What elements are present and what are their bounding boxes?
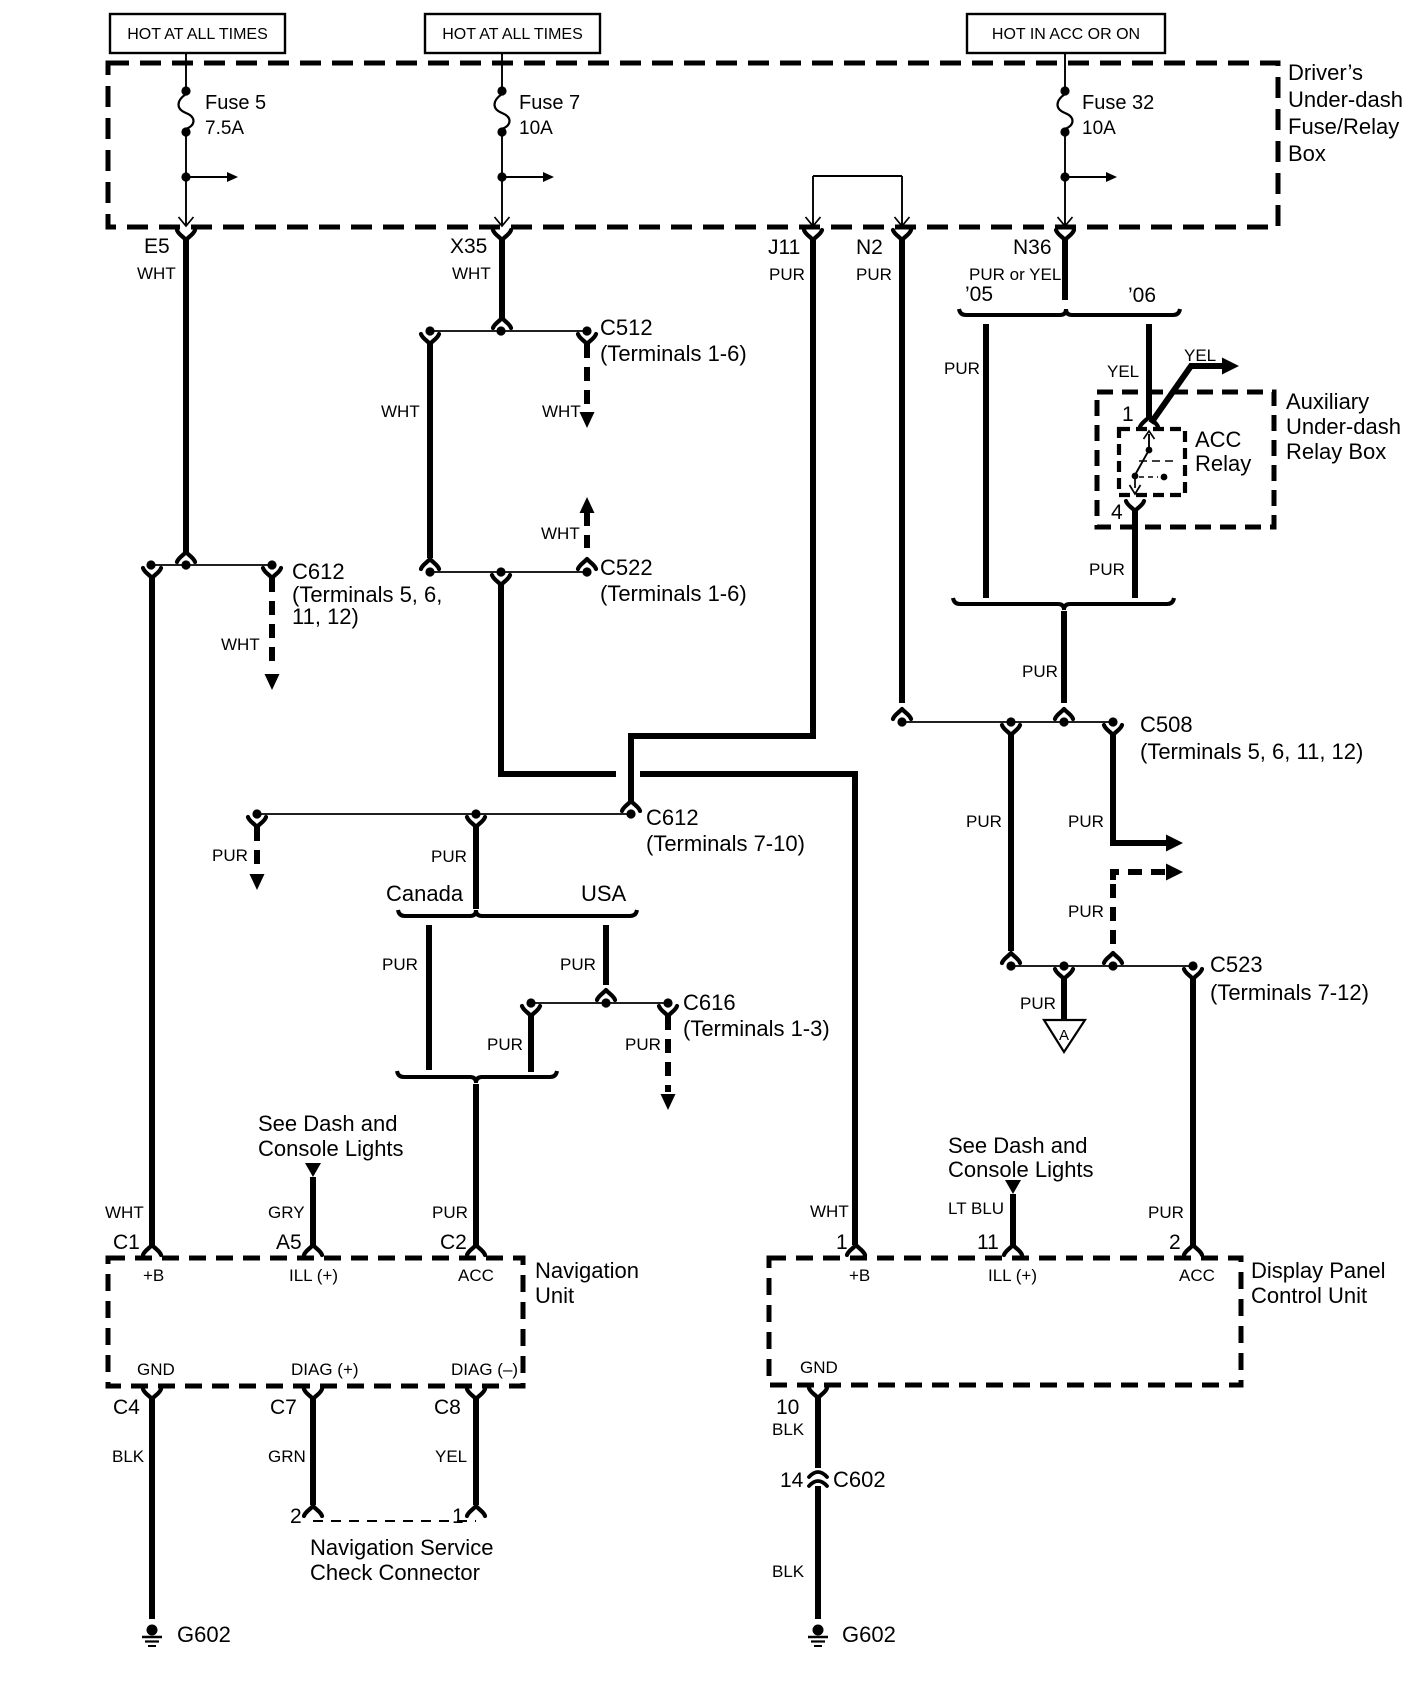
svg-text:X35: X35: [450, 235, 487, 258]
svg-text:C602: C602: [833, 1467, 886, 1492]
connector X35: [493, 230, 511, 240]
connector end at C508 line: [1055, 709, 1073, 719]
wire N2 PUR vertical: [899, 240, 905, 703]
wire PUR vertical to navigation ACC: [473, 1084, 479, 1245]
svg-text:PUR: PUR: [966, 812, 1002, 831]
svg-text:1: 1: [1122, 403, 1134, 426]
svg-text:LT BLU: LT BLU: [948, 1199, 1004, 1218]
connector C612 left branch: [143, 568, 161, 578]
svg-text:WHT: WHT: [137, 264, 176, 283]
svg-text:Canada: Canada: [386, 881, 464, 906]
connector end USA at C616 line: [597, 990, 615, 1000]
svg-text:C523: C523: [1210, 952, 1263, 977]
merge brace Canada/USA to single: [397, 1071, 557, 1083]
svg-text:C1: C1: [113, 1231, 140, 1254]
svg-text:N36: N36: [1013, 236, 1052, 259]
wire YEL diagonal takeoff arrow: [1151, 366, 1222, 423]
svg-text:BLK: BLK: [772, 1420, 805, 1439]
connector end N2 at C508 line: [893, 709, 911, 719]
svg-text:Fuse/Relay: Fuse/Relay: [1288, 114, 1399, 139]
svg-text:WHT: WHT: [221, 635, 260, 654]
svg-text:2: 2: [1169, 1231, 1181, 1254]
svg-text:YEL: YEL: [435, 1447, 467, 1466]
svg-text:E5: E5: [144, 235, 170, 258]
connector C508 branch left: [1002, 725, 1020, 735]
svg-text:PUR: PUR: [1068, 902, 1104, 921]
svg-text:PUR: PUR: [560, 955, 596, 974]
dashed WHT wire down arrow (C612): [269, 578, 275, 670]
svg-text:A: A: [1059, 1027, 1069, 1044]
svg-text:1: 1: [836, 1231, 848, 1254]
svg-text:DIAG (–): DIAG (–): [451, 1360, 518, 1379]
wire USA PUR vertical: [603, 925, 609, 985]
wire merged PUR vertical: [1061, 611, 1067, 703]
junction line C612 (5,6,11,12): [151, 564, 272, 566]
svg-text:Driver’s: Driver’s: [1288, 60, 1363, 85]
connector N2: [893, 230, 911, 240]
Auxiliary Under-dash Relay Box (dashed): [1097, 392, 1274, 527]
wire C508-right PUR to arrow: [1113, 735, 1166, 843]
connector C612(7-10) center branch: [467, 817, 485, 827]
connector C522 center branch: [492, 575, 510, 585]
svg-text:7.5A: 7.5A: [205, 118, 244, 139]
wire PUR center vertical: [473, 827, 479, 909]
svg-text:(Terminals 1-3): (Terminals 1-3): [683, 1016, 830, 1041]
svg-text:10A: 10A: [519, 118, 553, 139]
svg-text:C522: C522: [600, 555, 653, 580]
svg-text:PUR: PUR: [1020, 994, 1056, 1013]
svg-text:WHT: WHT: [541, 524, 580, 543]
wire to A triangle: [1061, 979, 1067, 1020]
ACC Relay inner box (dashed): [1119, 429, 1185, 495]
svg-text:C612: C612: [646, 805, 699, 830]
svg-text:PUR: PUR: [625, 1035, 661, 1054]
svg-text:A5: A5: [276, 1231, 302, 1254]
junction line C523: [1011, 965, 1193, 967]
Navigation Unit box (dashed): [108, 1258, 523, 1386]
svg-text:Unit: Unit: [535, 1283, 574, 1308]
junction line C512: [430, 330, 587, 332]
wire Canada PUR vertical: [426, 925, 432, 1070]
svg-text:PUR: PUR: [769, 265, 805, 284]
svg-text:PUR: PUR: [487, 1035, 523, 1054]
connector C508 branch right: [1104, 725, 1122, 735]
svg-text:PUR: PUR: [431, 847, 467, 866]
svg-text:Relay Box: Relay Box: [1286, 439, 1386, 464]
svg-text:BLK: BLK: [112, 1447, 145, 1466]
wire N36 vertical: [1062, 240, 1068, 300]
svg-text:ILL (+): ILL (+): [988, 1266, 1037, 1285]
navigation service check connector dashed link: [313, 1520, 476, 1522]
svg-text:Relay: Relay: [1195, 451, 1251, 476]
svg-text:WHT: WHT: [105, 1203, 144, 1222]
wire WHT C512-left vertical: [427, 344, 433, 558]
svg-text:4: 4: [1111, 501, 1123, 524]
power label box HOT IN ACC OR ON: [967, 14, 1165, 53]
svg-text:ILL (+): ILL (+): [289, 1266, 338, 1285]
svg-text:(Terminals 1-6): (Terminals 1-6): [600, 341, 747, 366]
wire GRY vertical: [310, 1177, 316, 1245]
dashed PUR wire down arrow (C616): [665, 1016, 671, 1092]
svg-text:1: 1: [452, 1505, 464, 1528]
wire WHT vertical to navigation +B: [149, 578, 155, 1245]
svg-text:’06: ’06: [1128, 284, 1156, 307]
svg-text:Fuse 7: Fuse 7: [519, 92, 580, 114]
svg-text:USA: USA: [581, 881, 627, 906]
svg-text:Under-dash: Under-dash: [1286, 414, 1401, 439]
svg-text:PUR: PUR: [212, 846, 248, 865]
power label box HOT AT ALL TIMES (center): [425, 14, 600, 53]
connector end E5 at C612 line: [177, 552, 195, 562]
svg-text:YEL: YEL: [1184, 346, 1216, 365]
svg-text:DIAG (+): DIAG (+): [291, 1360, 359, 1379]
fuse Fuse 32 10A: [1064, 53, 1066, 87]
connector C616 left branch: [522, 1006, 540, 1016]
split brace Canada/USA: [398, 910, 637, 916]
svg-text:(Terminals 5, 6, 11, 12): (Terminals 5, 6, 11, 12): [1140, 739, 1363, 764]
wire PUR C616-left vertical: [528, 1016, 534, 1072]
wire '06 YEL vertical: [1146, 324, 1152, 417]
svg-text:(Terminals 7-10): (Terminals 7-10): [646, 831, 805, 856]
connector J11: [804, 230, 822, 240]
connector C612(7-10) left branch: [248, 817, 266, 827]
svg-text:BLK: BLK: [772, 1562, 805, 1581]
ground G602 (right): [813, 1625, 824, 1636]
wire '05 PUR vertical: [983, 324, 989, 598]
fuse Fuse 5 7.5A: [185, 53, 187, 87]
power label box HOT AT ALL TIMES (left): [110, 14, 285, 53]
internal bridge wire to J11 and N2: [813, 175, 902, 177]
wire C508-left PUR vertical: [1008, 735, 1014, 951]
svg-text:PUR: PUR: [856, 265, 892, 284]
svg-text:HOT AT ALL TIMES: HOT AT ALL TIMES: [127, 26, 268, 43]
wire BLK upper (display): [815, 1398, 821, 1468]
junction line C616: [531, 1002, 668, 1004]
dashed WHT wire down arrow (C512): [584, 344, 590, 410]
connector end YEL at check connector: [467, 1506, 485, 1516]
svg-text:G602: G602: [177, 1622, 231, 1647]
svg-text:C4: C4: [113, 1396, 140, 1419]
relay coil-switch symbol: [1144, 431, 1155, 439]
svg-text:C616: C616: [683, 990, 736, 1015]
wire YEL vertical: [473, 1399, 479, 1505]
svg-text:(Terminals 7-12): (Terminals 7-12): [1210, 980, 1369, 1005]
svg-text:C612: C612: [292, 559, 345, 584]
svg-text:WHT: WHT: [542, 402, 581, 421]
svg-text:PUR: PUR: [1089, 560, 1125, 579]
svg-text:10: 10: [776, 1396, 799, 1419]
svg-text:ACC: ACC: [1195, 427, 1242, 452]
svg-text:GRN: GRN: [268, 1447, 306, 1466]
svg-text:PUR or YEL: PUR or YEL: [969, 265, 1061, 284]
svg-text:GND: GND: [137, 1360, 175, 1379]
svg-text:J11: J11: [768, 236, 800, 259]
wire WHT main vertical (to display +B): [501, 585, 855, 1245]
svg-text:Fuse 32: Fuse 32: [1082, 92, 1154, 114]
connector end C508-left at C523 line: [1002, 953, 1020, 963]
connector C512 left branch: [421, 334, 439, 344]
connector end J11 at C612(7-10) line: [622, 801, 640, 811]
wire J11 lower routing: [631, 736, 813, 803]
wire GRN vertical: [310, 1399, 316, 1505]
svg-text:YEL: YEL: [1107, 362, 1139, 381]
svg-text:See Dash and: See Dash and: [258, 1111, 397, 1136]
junction line C612 (7-10): [257, 813, 631, 815]
svg-text:’05: ’05: [965, 283, 993, 306]
connector C612 dashed branch: [263, 568, 281, 578]
svg-text:PUR: PUR: [944, 359, 980, 378]
svg-text:C8: C8: [434, 1396, 461, 1419]
connector A-branch: [1055, 969, 1073, 979]
dashed PUR wire down arrow: [254, 827, 260, 872]
svg-text:WHT: WHT: [452, 264, 491, 283]
svg-text:Under-dash: Under-dash: [1288, 87, 1403, 112]
wire X35 WHT vertical: [499, 240, 505, 320]
connector E5: [177, 230, 195, 240]
svg-text:Navigation Service: Navigation Service: [310, 1535, 493, 1560]
fuse Fuse 7 10A: [501, 53, 503, 87]
svg-text:Fuse 5: Fuse 5: [205, 92, 266, 114]
svg-text:C2: C2: [440, 1231, 467, 1254]
svg-text:WHT: WHT: [381, 402, 420, 421]
wire J11 PUR vertical: [810, 240, 816, 739]
wire C523 PUR vertical to display: [1190, 979, 1196, 1245]
wire E5 WHT vertical: [183, 240, 189, 554]
svg-text:C508: C508: [1140, 712, 1193, 737]
svg-text:HOT IN ACC OR ON: HOT IN ACC OR ON: [992, 26, 1140, 43]
svg-text:PUR: PUR: [382, 955, 418, 974]
svg-text:GRY: GRY: [268, 1203, 305, 1222]
svg-text:HOT AT ALL TIMES: HOT AT ALL TIMES: [442, 26, 583, 43]
svg-text:PUR: PUR: [1148, 1203, 1184, 1222]
svg-text:ACC: ACC: [458, 1266, 494, 1285]
from-lights triangle (left): [305, 1163, 321, 1177]
svg-text:+B: +B: [143, 1266, 164, 1285]
Display Panel Control Unit box (dashed): [769, 1258, 1241, 1385]
svg-text:ACC: ACC: [1179, 1266, 1215, 1285]
off-page reference triangle A: [1044, 1020, 1085, 1052]
svg-text:WHT: WHT: [810, 1202, 849, 1221]
svg-text:(Terminals 1-6): (Terminals 1-6): [600, 581, 747, 606]
wire LT BLU vertical: [1010, 1194, 1016, 1245]
svg-text:Console Lights: Console Lights: [258, 1136, 404, 1161]
wire BLK lower (display): [815, 1486, 821, 1619]
svg-text:C512: C512: [600, 315, 653, 340]
svg-text:Display Panel: Display Panel: [1251, 1258, 1386, 1283]
svg-text:Check Connector: Check Connector: [310, 1560, 480, 1585]
svg-text:GND: GND: [800, 1358, 838, 1377]
svg-text:PUR: PUR: [432, 1203, 468, 1222]
svg-text:Control Unit: Control Unit: [1251, 1283, 1367, 1308]
connector N36: [1056, 230, 1074, 240]
connector C616 right branch: [659, 1006, 677, 1016]
svg-text:G602: G602: [842, 1622, 896, 1647]
svg-text:PUR: PUR: [1068, 812, 1104, 831]
dashed PUR return wire with arrow: [1113, 872, 1166, 880]
connector end dashed at C523 line: [1104, 953, 1122, 963]
svg-text:11: 11: [977, 1231, 999, 1254]
connector end GRN at check connector: [304, 1506, 322, 1516]
junction line C522: [430, 571, 587, 573]
svg-text:2: 2: [290, 1505, 302, 1528]
wire BLK to ground (nav): [149, 1399, 155, 1619]
ground G602 (left): [147, 1625, 158, 1636]
merge brace 05/06 to single: [953, 598, 1174, 610]
wire relay pin4 PUR vertical: [1132, 511, 1138, 598]
svg-text:Console Lights: Console Lights: [948, 1157, 1094, 1182]
connector end X35 at C512 line: [493, 318, 511, 328]
svg-text:C7: C7: [270, 1396, 297, 1419]
Driver's Under-dash Fuse/Relay Box (dashed): [108, 63, 1278, 227]
connector C512 right branch: [578, 334, 596, 344]
svg-text:+B: +B: [849, 1266, 870, 1285]
svg-text:10A: 10A: [1082, 118, 1116, 139]
svg-text:Box: Box: [1288, 141, 1326, 166]
svg-text:11, 12): 11, 12): [292, 604, 359, 629]
junction line C508: [902, 721, 1113, 723]
connector C523 right branch: [1184, 969, 1202, 979]
split brace 05/06: [959, 309, 1180, 315]
svg-text:14: 14: [780, 1469, 804, 1492]
connector end C512-left at C522 line: [421, 559, 439, 569]
svg-text:N2: N2: [856, 236, 883, 259]
from-lights triangle (right): [1005, 1180, 1021, 1194]
svg-text:Navigation: Navigation: [535, 1258, 639, 1283]
svg-text:PUR: PUR: [1022, 662, 1058, 681]
svg-text:See Dash and: See Dash and: [948, 1133, 1087, 1158]
dashed WHT wire up arrow (C522): [584, 513, 590, 557]
svg-text:Auxiliary: Auxiliary: [1286, 389, 1369, 414]
